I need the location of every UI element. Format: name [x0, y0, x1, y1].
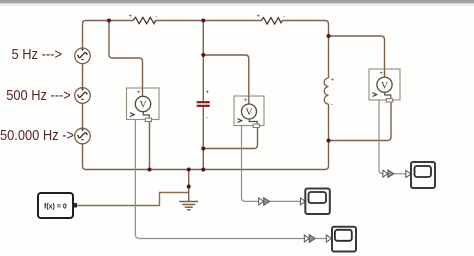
- solver configuration block f(x)=0: [38, 193, 77, 218]
- AC voltage source 2 (500 Hz): [75, 88, 91, 104]
- signal wire V2 to scope B converter: [242, 126, 259, 202]
- svg-text:-: -: [156, 15, 158, 21]
- svg-text:+: +: [129, 14, 133, 20]
- resistor R2: [261, 18, 282, 24]
- junction dot top-middle: [201, 19, 205, 23]
- svg-text:+: +: [137, 89, 141, 96]
- wire: voltmeter V3 minus to inductor branch: [329, 96, 392, 141]
- svg-text:V: V: [139, 100, 146, 111]
- PS-Simulink converter for scope A: [383, 170, 406, 178]
- svg-text:-: -: [331, 102, 333, 108]
- svg-text:f(x) = 0: f(x) = 0: [44, 204, 67, 211]
- toolbar strip: [0, 0, 474, 6]
- capacitor C1: [197, 90, 210, 122]
- scope B: [300, 189, 329, 215]
- wire: source interconnects: [82, 63, 84, 128]
- wire: voltmeter V2 minus to capacitor branch: [203, 121, 257, 149]
- svg-text:+: +: [331, 78, 335, 84]
- voltmeter U3: [369, 69, 400, 102]
- annotation label 500 Hz: [6, 87, 71, 104]
- signal wire V3 to scope A converter: [379, 100, 383, 174]
- svg-text:+: +: [244, 97, 248, 104]
- resistor R1 polarity marks: [129, 14, 158, 21]
- junction dot mid branch: [201, 53, 205, 57]
- signal wire V1 to scope C converter: [135, 120, 303, 239]
- AC voltage source 1 (5 Hz): [75, 48, 91, 64]
- wire: solver block to ground node: [76, 193, 189, 206]
- AC voltage source 3 (50.000 Hz): [75, 128, 91, 144]
- voltmeter U2: [234, 96, 264, 128]
- wire: source chain top to R1 to R2 to right corner: [83, 21, 329, 79]
- wire: top junction down to voltmeter V1 input: [109, 21, 143, 97]
- svg-text:V: V: [245, 107, 252, 118]
- wire: bottom bus from sources to inductor bottom: [83, 104, 329, 170]
- junction dot bus capacitor: [201, 168, 205, 172]
- resistor R2 polarity marks: [257, 14, 286, 21]
- junction dot ground stem: [187, 185, 191, 189]
- svg-text:5 Hz --->: 5 Hz --->: [12, 46, 63, 63]
- PS-Simulink converter for scope C: [304, 235, 326, 243]
- svg-text:+: +: [206, 90, 210, 96]
- junction dot right top: [327, 34, 331, 38]
- junction dot top-left: [107, 19, 111, 23]
- annotation label 50.000 Hz: [0, 127, 74, 144]
- svg-text:V: V: [381, 80, 388, 91]
- inductor L1: [324, 78, 328, 104]
- wire: voltmeter V1 minus to bus: [149, 115, 151, 170]
- voltmeter U1: [127, 88, 160, 122]
- PS-Simulink converter for scope B: [259, 198, 301, 206]
- junction dot bus V1: [148, 168, 152, 172]
- svg-text:+: +: [379, 70, 383, 77]
- junction dot bus ground: [187, 168, 191, 172]
- scope C: [326, 227, 356, 252]
- wire: ground stem: [188, 170, 190, 202]
- svg-text:500 Hz --->: 500 Hz --->: [6, 87, 71, 104]
- inductor L1 polarity marks: [331, 78, 335, 109]
- wire: right junction to voltmeter V3 input: [329, 36, 385, 77]
- ground symbol: [179, 202, 198, 210]
- junction dot right middle: [327, 139, 331, 143]
- wire: middle branch down to capacitor: [202, 21, 204, 170]
- svg-text:-: -: [206, 116, 208, 122]
- resistor R1: [133, 17, 156, 23]
- svg-text:+: +: [257, 14, 261, 20]
- wire: branch to voltmeter V2 input: [203, 55, 249, 104]
- svg-text:50.000 Hz ->: 50.000 Hz ->: [0, 127, 74, 144]
- scope A: [406, 162, 435, 188]
- svg-text:-: -: [283, 15, 285, 21]
- junction dot capacitor/V2: [201, 147, 205, 151]
- annotation label 5 Hz: [12, 46, 63, 63]
